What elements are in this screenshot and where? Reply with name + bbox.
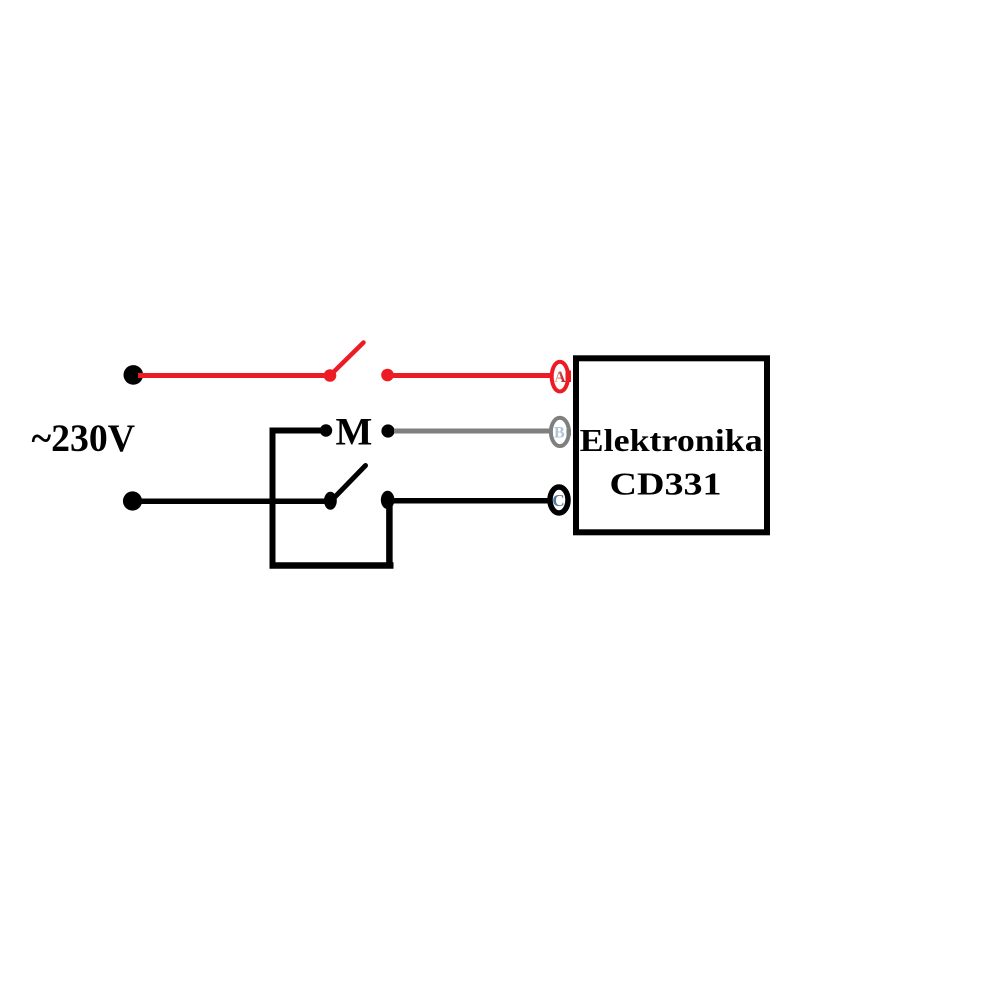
switch S1 throw dot (red): [381, 369, 394, 382]
switch S1 pole dot (red): [324, 369, 337, 382]
switch S2 arm (black, open): [332, 466, 366, 501]
wire: bottom link wire: [270, 562, 394, 569]
svg-text:B: B: [554, 424, 565, 441]
wire: red phase wire from supply dot to switch S1: [138, 373, 330, 378]
node: junction dot at start of gray wire: [381, 424, 394, 437]
svg-text:~230V: ~230V: [32, 417, 136, 460]
svg-text:Elektronika: Elektronika: [580, 423, 763, 458]
switch S1 arm (red, open): [331, 343, 364, 375]
wire: gray wire from node to terminal B: [394, 429, 549, 434]
wire: top link wire from motor node M to left vertical: [270, 428, 327, 434]
svg-text:C: C: [552, 491, 564, 510]
wire: black neutral wire from supply dot to switch S2: [137, 499, 331, 505]
box: Elektronika CD331 controller: [576, 358, 767, 532]
switch S2 throw dot: [381, 491, 395, 509]
svg-text:CD331: CD331: [610, 466, 722, 501]
wire: left vertical link: [270, 428, 276, 569]
terminal A (red ellipse): [552, 362, 568, 392]
node: neutral supply terminal dot: [123, 491, 142, 510]
wire: right vertical link from switch S2 throw down to bottom wire: [386, 500, 393, 569]
terminal B (gray ellipse): [551, 418, 569, 446]
wire: red wire from switch S1 to terminal A: [388, 373, 552, 378]
node: motor M terminal dot: [320, 424, 332, 436]
svg-text:M: M: [336, 411, 373, 454]
svg-text:A: A: [554, 369, 566, 386]
switch S2 pole dot: [324, 492, 337, 510]
wire: black wire from switch S2 to terminal C: [388, 498, 548, 504]
terminal C (black ellipse): [550, 487, 568, 513]
node: phase supply terminal dot: [124, 365, 144, 385]
